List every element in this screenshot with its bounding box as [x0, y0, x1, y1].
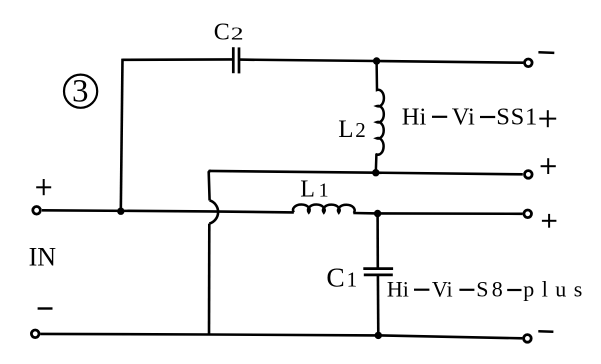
svg-text:L: L [300, 176, 315, 202]
node junction second row at L2 bottom [372, 169, 379, 176]
svg-text:HiViSS1: HiViSS1 [402, 103, 537, 130]
wire top (C2 row, right segment from C2 to output terminal) [239, 60, 524, 63]
svg-text:C: C [326, 262, 344, 293]
svg-text:2: 2 [231, 24, 244, 44]
wire main input row (left terminal through hop and L1 to + output) [42, 210, 294, 212]
label + after SS1 [539, 110, 556, 127]
label - at output row4 [538, 330, 553, 333]
label L1 [300, 176, 328, 202]
inductor L1 [293, 204, 355, 213]
node junction bottom rail at C1 [375, 332, 382, 339]
label C2 [214, 19, 244, 45]
wire hop vertical (second row down to bottom rail, hops over main row) [209, 171, 218, 335]
label - at input [38, 307, 53, 309]
svg-text:1: 1 [319, 179, 329, 201]
svg-text:3: 3 [72, 74, 89, 110]
terminal out row4 - (open circle) [524, 335, 532, 343]
wire bottom rail [40, 334, 522, 338]
svg-text:L: L [338, 116, 353, 143]
svg-text:IN: IN [29, 243, 57, 272]
label C1 [326, 262, 357, 293]
label Hi-Vi-SS1 [402, 103, 537, 130]
label + at input [36, 179, 51, 195]
circled 3 designator [64, 74, 97, 110]
wire main input row (L1 to output terminal) [353, 212, 522, 215]
svg-text:C: C [214, 19, 230, 45]
terminal IN + (open circle) [33, 207, 41, 215]
terminal IN - (open circle) [31, 330, 39, 338]
node junction on top rail at L2 top [373, 57, 380, 64]
terminal out row3 + (open circle) [524, 210, 532, 218]
label L2 [338, 116, 366, 143]
node junction main row at L1/C1 [374, 210, 381, 217]
node junction main row with left vertical rail [117, 208, 124, 215]
inductor L2 [376, 61, 384, 173]
wire C1 bottom lead [377, 275, 380, 335]
capacitor C1 [363, 269, 393, 275]
wire top (C2 row, left segment from corner to C2) [122, 58, 233, 61]
svg-text:2: 2 [355, 118, 366, 142]
wire C1 top lead [376, 214, 379, 269]
svg-text:1: 1 [347, 268, 358, 292]
capacitor C2 [233, 47, 239, 73]
wire left vertical (input + rail up to C2 row) [121, 59, 123, 212]
wire second row (from hop corner to + output terminal) [209, 171, 523, 174]
label - at output row1 [538, 51, 554, 54]
terminal out row1 - (open circle) [525, 59, 533, 67]
label + at output row3 [542, 214, 557, 228]
terminal out row2 + (open circle) [525, 171, 533, 179]
label + at output row2 [541, 158, 556, 174]
